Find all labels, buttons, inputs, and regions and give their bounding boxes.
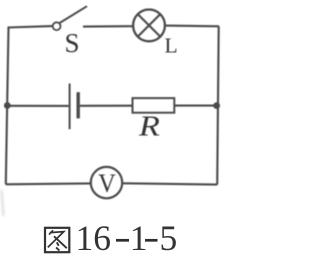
wire right vertical: [217, 26, 219, 184]
node left junction: [4, 102, 11, 109]
lamp L: [133, 10, 178, 58]
svg-text:16: 16: [76, 218, 112, 258]
svg-text:R: R: [138, 110, 160, 141]
wire switch contact to lamp: [83, 25, 133, 27]
wire middle-left to battery: [8, 105, 69, 107]
svg-text:5: 5: [160, 218, 178, 258]
wire bottom-left to voltmeter: [6, 182, 91, 185]
svg-text:V: V: [98, 168, 116, 198]
svg-text:L: L: [165, 34, 178, 58]
svg-text:1: 1: [130, 218, 148, 258]
switch S: [53, 6, 87, 58]
wire left vertical: [6, 27, 9, 184]
wire battery to resistor: [80, 105, 133, 107]
faint scan streak left edge: [2, 190, 4, 216]
resistor R: [133, 98, 175, 142]
wire top-left to switch: [8, 26, 53, 27]
caption text 16-1-5: [76, 218, 178, 258]
node right junction: [213, 102, 220, 109]
wire lamp to top-right: [166, 25, 220, 28]
wire voltmeter to bottom-right: [123, 183, 218, 184]
voltmeter V: [91, 167, 122, 198]
caption character 图: [45, 228, 69, 252]
battery cell: [70, 84, 79, 130]
wire resistor to right junction: [174, 105, 216, 107]
svg-text:S: S: [65, 28, 80, 58]
